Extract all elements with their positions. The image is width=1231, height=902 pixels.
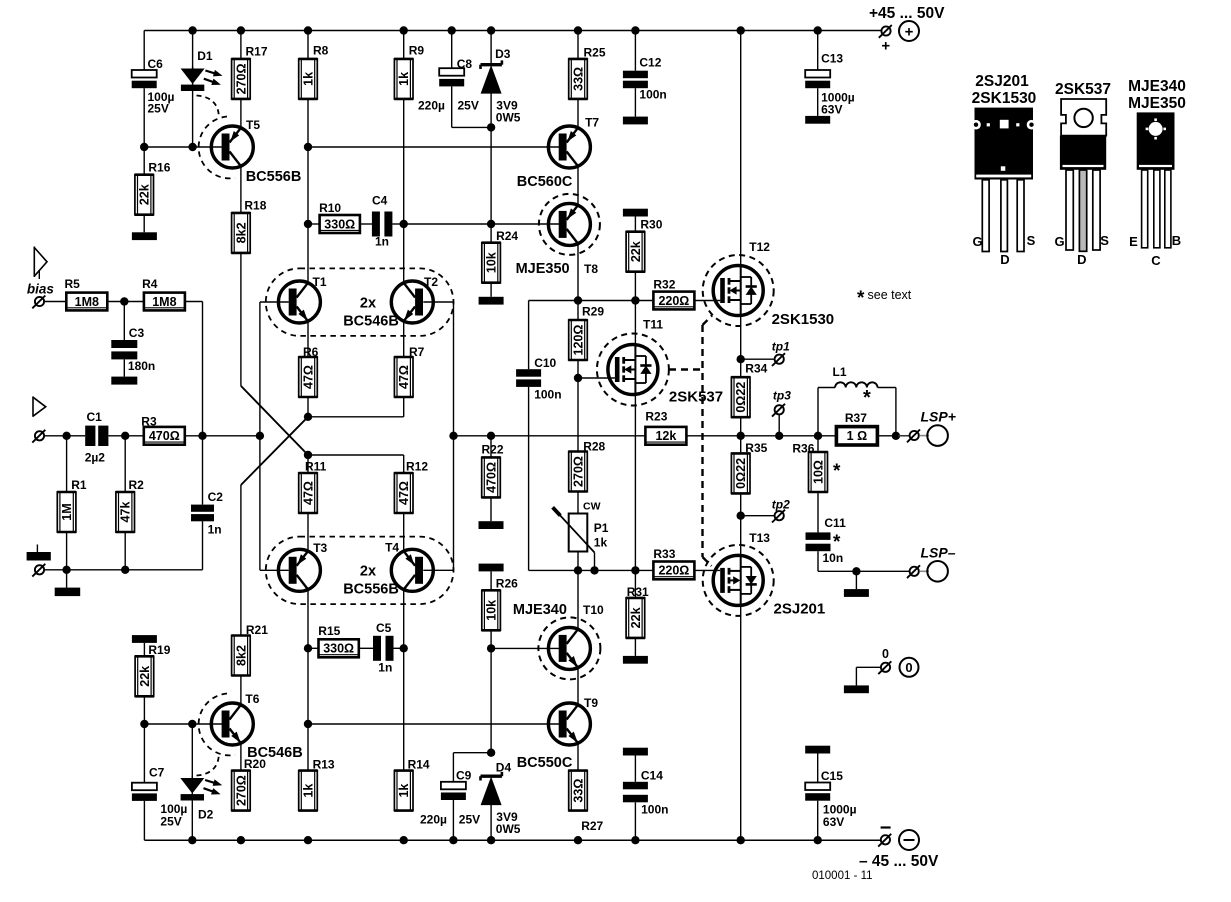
wire R5 to R4 [107,301,144,303]
svg-text:R29: R29 [582,305,604,319]
svg-text:2µ2: 2µ2 [85,451,106,465]
resistor R31 [626,570,649,638]
resistor R26 [482,577,519,631]
svg-text:C15: C15 [821,769,843,783]
svg-text:1n: 1n [378,661,392,675]
capacitor C2 [191,490,223,537]
node T11-source/R31 [631,566,639,574]
svg-text:R17: R17 [246,45,268,59]
junction on -45V rail [304,836,312,844]
wire T5 base line [144,146,222,148]
label LSP+ [921,409,956,425]
svg-text:33Ω: 33Ω [571,67,585,91]
svg-text:220µ: 220µ [420,813,447,827]
node T4-collector/C5 [400,644,408,652]
capacitor C6 [132,57,175,116]
chassis ground symbol [27,545,51,561]
wire R18 down [240,253,242,386]
terminal bias input [32,296,45,309]
svg-text:*: * [857,288,865,309]
label +45 ... 50V [869,5,945,22]
wire rail to C12 [634,31,636,71]
svg-text:470Ω: 470Ω [149,429,180,443]
node R2 top [121,432,129,440]
wire node to D2 [191,724,193,778]
wire R26 to T10 base node [490,630,492,648]
label MJE350 [516,261,570,277]
wire bias terminal to R5 [45,301,67,303]
svg-text:R14: R14 [408,758,430,772]
svg-text:R15: R15 [318,624,340,638]
input arrow signal [33,396,46,416]
node P1 wiper [590,566,598,574]
transistor T4 [385,541,433,592]
node R19/C7/T6-base [140,720,148,728]
wire C2 bottom [202,521,204,570]
wire C10 to bottom line [528,387,530,571]
svg-text:MJE350: MJE350 [1128,95,1186,112]
svg-text:R1: R1 [71,478,87,492]
resistor R9 [394,31,424,99]
svg-text:BC560C: BC560C [517,174,573,190]
svg-text:R12: R12 [406,460,428,474]
svg-text:LSP+: LSP+ [921,409,956,425]
svg-text:R9: R9 [409,44,425,58]
svg-text:1k: 1k [397,784,411,798]
svg-text:8k2: 8k2 [234,645,248,666]
svg-text:22k: 22k [138,666,152,687]
wire bias bottom line [529,569,654,571]
svg-text:22k: 22k [629,241,643,262]
wire T10 collector up [577,570,579,629]
wire C6 to node [143,88,145,147]
resistor R17 [231,31,268,99]
junction on +45V rail [814,26,822,34]
svg-text:T11: T11 [643,318,663,332]
potentiometer P1 [553,501,609,553]
wire C13 to ground [805,88,830,124]
wire R7 to node [403,397,405,417]
wire R9 to T2 collector [403,99,405,283]
svg-text:CW: CW [583,501,601,513]
node D1/T5 base [188,143,196,151]
ground for 0 terminal [844,667,880,693]
ground above R30 [623,209,648,232]
node R5/R4/C3 [120,297,128,305]
svg-text:1k: 1k [594,536,608,550]
svg-text:R22: R22 [482,443,504,457]
ground above R19 [132,635,157,656]
svg-text:R30: R30 [640,218,662,232]
label 2x BC556B [343,564,399,598]
junction on +45V rail [304,26,312,34]
svg-text:R26: R26 [496,577,518,591]
svg-text:+: + [881,38,890,55]
svg-text:C8: C8 [457,57,473,71]
node R1 top [62,432,70,440]
wire rail to D3 [490,31,492,64]
resistor R6 [298,345,318,397]
capacitor C15 [805,769,856,829]
wire C1 to R3 [108,435,143,437]
svg-text:L1: L1 [833,365,847,379]
svg-text:2SJ201: 2SJ201 [774,601,826,618]
svg-text:1n: 1n [375,235,389,249]
dashed thermal line [669,316,712,567]
wire R35 to tp2 node [740,493,742,515]
svg-text:270Ω: 270Ω [571,456,585,487]
package 2SK537 leads [1066,170,1100,251]
resistor R16 [135,147,171,215]
junction on +45V rail [574,26,582,34]
wire R2 bottom [124,532,126,570]
resistor R3 [141,415,185,445]
resistor R29 [568,301,604,361]
svg-text:25V: 25V [458,99,479,113]
svg-text:2SK1530: 2SK1530 [772,311,835,328]
test point tp3 [772,389,791,440]
svg-text:+: + [905,23,914,40]
wire output line [687,435,910,437]
wire T3 base lead [260,569,289,571]
svg-text:T5: T5 [246,118,260,132]
wire R8 to T1 collector [307,99,309,283]
svg-text:47Ω: 47Ω [397,481,411,505]
svg-text:– 45 ... 50V: – 45 ... 50V [859,853,939,870]
terminal 0 [878,647,918,677]
wire C15 to -rail [817,801,819,841]
node L1/R36 branch [814,432,822,440]
svg-text:R6: R6 [303,345,319,359]
node D3/R24/T8-base [487,220,495,228]
node R8/R10 [304,220,312,228]
svg-text:see text: see text [868,288,912,302]
svg-text:D3: D3 [495,47,511,61]
svg-text:R5: R5 [65,277,81,291]
svg-text:*: * [833,461,841,482]
node R4/C2 on input line [198,432,206,440]
wire R6 to node [307,397,309,417]
svg-text:BC556B: BC556B [343,582,399,598]
junction on +45V rail [737,26,745,34]
svg-text:220µ: 220µ [418,99,445,113]
svg-text:C3: C3 [129,326,145,340]
junction on -45V rail [188,836,196,844]
svg-text:R35: R35 [745,441,767,455]
label LSP- [921,545,956,561]
svg-text:10k: 10k [485,600,499,621]
wire top line to C10 [528,301,530,370]
label 2SJ201 [774,601,826,618]
junction on +45V rail [188,26,196,34]
junction on -45V rail [631,836,639,844]
node feedback column [449,432,457,440]
svg-text:C5: C5 [376,621,392,635]
wire C4 node to zener node [404,223,491,225]
wire T1/T3 base column [259,302,261,570]
wire -45V bottom supply rail [144,839,880,841]
svg-text:2SK1530: 2SK1530 [972,90,1037,107]
node D2/T6 base [188,720,196,728]
svg-text:R24: R24 [496,229,518,243]
ground above R26 [479,564,504,591]
wire T3 collector down [307,589,309,770]
capacitor C9 [420,769,480,827]
svg-text:100n: 100n [641,803,668,817]
svg-text:2SJ201: 2SJ201 [975,73,1029,90]
junction on -45V rail [400,836,408,844]
wire T1 base lead [260,301,289,303]
svg-text:+45 ... 50V: +45 ... 50V [869,5,945,22]
svg-text:0W5: 0W5 [496,111,521,125]
svg-text:0Ω22: 0Ω22 [734,382,748,413]
wire R3 to T1/T3 base column [185,435,260,437]
svg-text:BC550C: BC550C [517,755,573,771]
svg-text:R16: R16 [148,161,170,175]
wire R21 to T6 collector [240,676,242,706]
wire rail to T12 drain [740,31,742,267]
ground wire input [45,569,203,571]
capacitor C4 [360,194,404,249]
svg-text:120Ω: 120Ω [571,325,585,356]
capacitor C14 [623,769,669,817]
package 2SJ201/2SK1530 leads [982,180,1024,252]
junction on -45V rail [237,836,245,844]
svg-text:T6: T6 [245,692,259,706]
resistor R10 [308,201,360,233]
wire D2 to -rail [191,801,193,841]
node output/R34-R35 [737,432,745,440]
svg-text:63V: 63V [821,103,842,117]
svg-text:47Ω: 47Ω [301,481,315,505]
resistor R24 [482,224,519,283]
wire R25 to T7 emitter [577,99,579,128]
wire R17 to T5 emitter [240,99,242,128]
svg-text:*: * [833,532,841,553]
node tp1 [737,355,745,363]
node R8/T5-T7 base line [304,143,312,151]
package 2SK537 pin labels [1054,233,1109,267]
wire R1 bottom [66,532,68,570]
wire down to R21 [240,485,242,636]
svg-text:100n: 100n [639,88,666,102]
wire rail to D1 [192,31,194,69]
svg-text:BC556B: BC556B [246,169,302,185]
svg-text:B: B [1172,233,1181,248]
ground below R16 [132,215,157,240]
wire D4 to -rail [490,805,492,841]
label MJE340 [513,602,567,618]
transistor T5 [211,118,260,168]
capacitor C10 [516,356,561,402]
svg-text:330Ω: 330Ω [323,642,354,656]
node R22 tap [487,432,495,440]
svg-text:tp3: tp3 [773,389,791,403]
svg-text:100n: 100n [534,388,561,402]
node R37/L1 right [892,432,900,440]
label BC550C [517,755,573,771]
wire T11 source [634,393,636,570]
wire P1 bottom [577,552,579,571]
package 2SJ201/2SK1530 pin labels [972,233,1035,267]
svg-text:T2: T2 [424,275,438,289]
ground symbol below input line [55,570,80,596]
svg-text:0: 0 [882,647,889,661]
svg-text:bias: bias [27,282,55,297]
svg-text:R11: R11 [305,460,327,474]
label 010001-11 [812,870,873,882]
svg-text:R23: R23 [645,410,667,424]
svg-text:R27: R27 [581,819,603,833]
svg-text:D: D [1077,252,1086,267]
mosfet T13 2SJ201 [703,531,774,616]
power terminal +45V [879,21,919,55]
svg-text:2SK537: 2SK537 [669,389,723,406]
resistor R36 [792,436,841,492]
junction on +45V rail [400,26,408,34]
node input to base column [256,432,264,440]
junction on -45V rail [487,836,495,844]
svg-text:R8: R8 [313,44,329,58]
resistor R21 [231,623,268,676]
svg-text:R21: R21 [246,623,268,637]
transistor T1 [278,275,326,323]
svg-text:47k: 47k [119,502,133,523]
wire P1 wiper [594,553,596,571]
node C9/D4 [487,749,495,757]
ground above C14 [623,748,648,782]
svg-text:C4: C4 [372,194,388,208]
svg-text:25V: 25V [459,813,480,827]
package MJE340/MJE350 body [1137,112,1175,169]
svg-text:T9: T9 [584,696,598,710]
package MJE340/MJE350 labels [1128,78,1186,112]
ground below LSP- line [844,571,869,597]
svg-text:010001 - 11: 010001 - 11 [812,870,873,882]
label BC560C [517,174,573,190]
wire C11 to LSP- line [818,551,909,571]
resistor R18 [231,199,266,253]
wire tp2 node to T13 source [740,516,742,556]
svg-text:R3: R3 [141,415,157,429]
svg-text:R7: R7 [409,345,425,359]
LED D2 [180,776,222,822]
capacitor C5 [359,621,404,675]
capacitor C11 [806,516,847,565]
junction on -45V rail [737,836,745,844]
mosfet T11 2SK537 [597,318,669,406]
svg-text:1k: 1k [301,72,315,86]
wire T12 source [740,316,742,360]
terminal signal input [32,430,45,443]
wire T13 drain to -rail [740,605,742,840]
wire +45V top supply rail [144,30,881,32]
package MJE340/MJE350 pin labels [1129,233,1181,268]
wire bias top line [529,300,654,302]
svg-text:R13: R13 [313,758,335,772]
zener diode D4 [481,761,521,837]
svg-text:R31: R31 [627,585,649,599]
transistor T10 [538,603,604,679]
wire R26 node down to C9/D4 [490,648,492,752]
capacitor C3 [111,326,155,373]
wire T8 base [491,223,559,225]
inductor L1 [818,365,896,436]
wire R4 right and down [185,302,203,436]
svg-text:C14: C14 [641,769,663,783]
wire R32 to T12 gate [694,300,720,302]
wire R36 to C11 [817,492,819,532]
svg-text:R33: R33 [653,547,675,561]
svg-text:220Ω: 220Ω [658,564,689,578]
svg-text:MJE340: MJE340 [1128,78,1186,95]
wire C9 tap [453,753,491,782]
label BC546B lower [247,745,303,761]
wire T6 emitter to R20 [240,743,242,770]
wire T10 emitter to T9 collector [577,668,579,705]
diagonal wire from T1/T2 emitter node [241,417,308,485]
wire D1 to node [192,91,194,147]
wire C7 to -rail [143,801,145,840]
wire D3 down [490,93,492,224]
resistor R28 [568,378,605,492]
svg-text:S: S [1027,233,1036,248]
input arrow bias [34,247,47,280]
svg-text:C9: C9 [456,769,472,783]
resistor R13 [298,758,335,811]
svg-text:1M: 1M [60,503,74,520]
junction on +45V rail [237,26,245,34]
resistor R1 [57,436,87,532]
test point tp2 [741,498,790,523]
svg-text:10k: 10k [485,252,499,273]
wire rail to C13 [817,31,819,71]
svg-text:25V: 25V [160,815,181,829]
resistor R7 [394,345,425,397]
terminal input ground [32,564,45,577]
resistor R37 [836,411,877,445]
wire T4 base lead [423,569,453,571]
svg-text:C2: C2 [208,490,224,504]
ground above C15 [805,746,830,783]
svg-text:T8: T8 [584,262,598,276]
resistor R8 [298,31,328,99]
svg-text:22k: 22k [138,184,152,205]
package 2SK537 label [1055,81,1111,98]
svg-text:1 Ω: 1 Ω [847,429,867,443]
resistor R35 [731,436,768,494]
wire rail to C8 [451,31,453,69]
transistor T8 [539,194,600,276]
wire input to C1 [45,435,85,437]
node T3-collector/T9-base [304,720,312,728]
wire R34 to output node [740,417,742,436]
wire C14 to -rail [634,802,636,840]
resistor R32 [653,278,694,310]
svg-text:*: * [863,387,871,409]
svg-text:E: E [1129,234,1138,249]
svg-text:R19: R19 [148,643,170,657]
wire R12 to T4 emitter [403,513,405,551]
wire C7 stub [143,724,145,783]
junction on +45V rail [448,26,456,34]
diagonal wire to T3/T4 emitter node [241,386,308,455]
node R6/R7 common [304,413,312,421]
label 2SK537 [669,389,723,406]
terminal LSP- [907,561,948,582]
junction on +45V rail [631,26,639,34]
svg-text:MJE350: MJE350 [516,261,570,277]
